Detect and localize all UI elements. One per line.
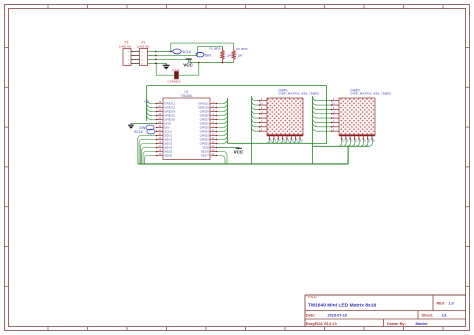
svg-text:VCC: VCC (144, 101, 149, 104)
svg-text:Drawn By:: Drawn By: (387, 322, 406, 326)
svg-text:P2: P2 (125, 40, 129, 44)
wire C1 loop (156, 63, 199, 76)
svg-text:EasyEDA V5.8.10: EasyEDA V5.8.10 (306, 322, 337, 326)
svg-text:SEG7: SEG7 (201, 154, 209, 158)
wire bus DISP2 left vertical with arc entries (313, 96, 332, 164)
connector P1 (137, 40, 157, 65)
IC U1 pins left (157, 101, 175, 158)
display DISP1 8x8 LED matrix (267, 88, 319, 135)
svg-text:CAP0603: CAP0603 (168, 79, 182, 83)
wire bus left vertical with GRID13-16 entries (147, 86, 158, 121)
net label VCC at U1 pin 1 (144, 101, 149, 104)
IC U1 pins right (198, 101, 216, 158)
svg-text:DIN: DIN (205, 53, 212, 57)
svg-text:Sheet:: Sheet: (422, 314, 434, 318)
svg-text:SEG6: SEG6 (164, 154, 172, 158)
net label DIN at U1 (140, 125, 158, 130)
power flag VCC at U1 VDD right (216, 147, 244, 155)
ground symbol (163, 63, 170, 69)
wire bus top rail (147, 86, 327, 144)
power flag VCC (183, 59, 193, 67)
svg-text:TM1640 Mini LED Matrix 8x16: TM1640 Mini LED Matrix 8x16 (308, 303, 377, 309)
svg-text:TITLE:: TITLE: (308, 295, 317, 299)
svg-text:1.0: 1.0 (449, 302, 454, 306)
wire GND row from P1 pin4 (155, 62, 166, 64)
svg-text:Date:: Date: (306, 314, 316, 318)
svg-text:SCLK: SCLK (134, 130, 143, 134)
connector P2 (119, 40, 140, 65)
wire VCC row from P1 pin3 (156, 59, 191, 62)
DISP2 pins left (331, 99, 339, 132)
svg-text:VCC: VCC (183, 62, 193, 67)
wire main bottom rail (bus) (138, 146, 348, 164)
svg-text:2018-07-19: 2018-07-19 (328, 314, 347, 318)
wire bus DISP2 bottom with arc entries (313, 139, 373, 146)
wire arcs DISP1 bottom pins to bus (266, 139, 300, 143)
svg-text:10K: 10K (237, 53, 242, 57)
display DISP2 8x8 LED matrix (339, 88, 391, 135)
svg-text:DISP_MATRIX_8X8_788BS: DISP_MATRIX_8X8_788BS (351, 92, 391, 96)
wire U1 SEG7 SEG8 to rail (216, 151, 227, 164)
net label SCLK (171, 49, 192, 54)
svg-text:R1 0805: R1 0805 (209, 46, 221, 50)
DISP1 pins left (259, 99, 267, 132)
net label DIN (196, 52, 211, 57)
svg-text:MaxInt: MaxInt (416, 322, 429, 326)
title block (305, 295, 466, 327)
ground symbol at U1 GND pin (128, 123, 157, 129)
VCC rail to resistors (189, 62, 234, 64)
DISP1 pins bottom (269, 135, 304, 142)
resistor R1 (209, 46, 231, 62)
wire SEG1-SEG6 from U1 left pins to bottom rail (138, 135, 158, 164)
DISP2 pins bottom (341, 135, 376, 142)
svg-text:0.1uF: 0.1uF (172, 68, 180, 72)
net label SCLK at U1 (134, 129, 157, 134)
svg-text:SCLK: SCLK (182, 50, 192, 54)
svg-text:REV:: REV: (437, 302, 446, 306)
svg-text:P1: P1 (142, 40, 146, 44)
svg-text:R2 0805: R2 0805 (236, 47, 248, 51)
svg-text:VCC: VCC (234, 150, 244, 155)
wire bus U1 right vertical with GRID entries (216, 98, 313, 144)
svg-text:1/1: 1/1 (442, 314, 447, 318)
capacitor C1 (168, 68, 182, 83)
wire bus DISP1 left vertical with arc entries (252, 96, 260, 164)
wire SCLK row from P1 pin1 (156, 43, 234, 52)
svg-text:1x4(2.54): 1x4(2.54) (137, 45, 150, 49)
op-amp U1 TM1640 IC body (163, 90, 210, 159)
wire DIN row from P1 pin2 (156, 47, 223, 56)
svg-text:1x4(2.54): 1x4(2.54) (119, 45, 132, 49)
resistor R2 (232, 47, 248, 62)
svg-text:TM1640: TM1640 (181, 94, 193, 98)
svg-text:DISP_MATRIX_8X8_788BS: DISP_MATRIX_8X8_788BS (279, 92, 319, 96)
